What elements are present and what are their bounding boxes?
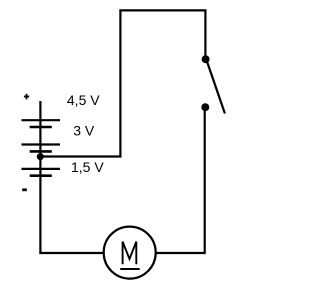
svg-text:4,5 V: 4,5 V: [67, 92, 100, 108]
svg-text:3 V: 3 V: [73, 123, 95, 139]
svg-text:1,5 V: 1,5 V: [71, 159, 104, 175]
